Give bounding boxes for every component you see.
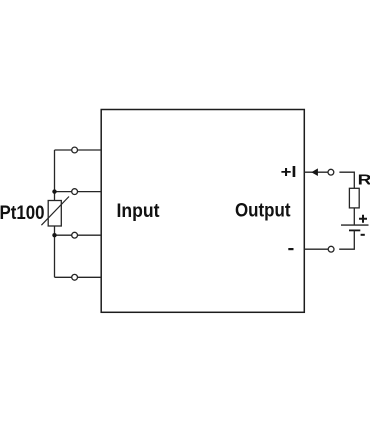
label + of battery — [359, 215, 367, 223]
wire output - to box — [304, 248, 328, 250]
svg-text:Input: Input — [117, 200, 160, 222]
battery BT1 positive plate — [341, 224, 369, 226]
arrowhead current direction — [311, 168, 318, 176]
svg-text:Output: Output — [235, 200, 291, 222]
wire terminal 2 horizontal — [55, 191, 102, 193]
wire left bus vertical — [54, 150, 56, 277]
terminal circle 1 — [72, 147, 78, 153]
terminal circle 3 — [72, 232, 78, 238]
junction node bottom — [52, 233, 56, 237]
wire terminal 1 horizontal — [55, 149, 102, 151]
wire terminal 3 horizontal — [55, 234, 102, 236]
terminal circle 2 — [72, 189, 78, 195]
junction node top — [52, 189, 56, 193]
wire battery down — [339, 230, 354, 249]
resistor Pt100 diagonal stroke — [41, 197, 69, 226]
wire output +I right segment — [339, 172, 354, 188]
label - of battery — [361, 234, 365, 236]
resistor R body — [349, 188, 359, 208]
terminal circle - output — [328, 246, 334, 252]
wire resistor to battery — [353, 208, 355, 225]
svg-text:Pt100: Pt100 — [0, 202, 45, 224]
label - output — [288, 248, 293, 250]
terminal circle +I — [328, 169, 334, 175]
wire terminal 4 horizontal — [55, 276, 102, 278]
terminal circle 4 — [72, 274, 78, 280]
resistor Pt100 body — [48, 201, 61, 227]
transmitter box U1 — [101, 110, 304, 313]
battery BT1 negative plate — [349, 229, 360, 231]
svg-text:+I: +I — [281, 164, 297, 181]
svg-text:R: R — [358, 172, 370, 188]
wire output +I left segment — [304, 171, 328, 173]
